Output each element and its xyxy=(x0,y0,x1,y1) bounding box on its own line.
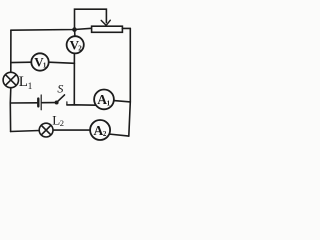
label: voltmeter V2 text xyxy=(70,37,83,52)
svg-text:S: S xyxy=(57,82,63,96)
wire: switch to ammeter A1 xyxy=(67,104,96,106)
svg-text:2: 2 xyxy=(60,118,64,128)
label: lamp L1 xyxy=(19,74,33,92)
wire: battery row left (junction to battery) xyxy=(10,102,37,104)
svg-text:1: 1 xyxy=(28,82,33,92)
label: ammeter A2 text xyxy=(94,123,107,138)
svg-text:2: 2 xyxy=(78,44,82,52)
lamp L2 cross xyxy=(42,126,51,135)
svg-text:L: L xyxy=(19,74,28,90)
node: junction dot at top wire xyxy=(72,27,77,32)
wire: L2 to A2 xyxy=(53,129,90,131)
wire: A1 right to right rail xyxy=(114,101,131,102)
ammeter A1 circle xyxy=(94,90,114,110)
label: lamp L2 xyxy=(52,112,64,127)
wire: V2 top stub to junction dot xyxy=(74,31,76,37)
wire: left vertical rail upper (corner to L1) xyxy=(10,30,12,72)
label: voltmeter V1 text xyxy=(34,54,47,69)
rheostat wiper arrowhead xyxy=(101,20,110,25)
switch right contact tick xyxy=(66,102,68,105)
wire: battery to switch pivot xyxy=(42,102,55,104)
svg-text:1: 1 xyxy=(107,100,111,108)
battery cell: long thin positive plate xyxy=(40,95,42,110)
lamp L2 circle xyxy=(39,123,53,137)
wire: right vertical rail xyxy=(129,28,131,136)
wire: left vertical rail middle (L1 to battery junction) and lower xyxy=(9,88,12,132)
battery cell: short thick negative plate xyxy=(37,99,39,107)
lamp L1 cross xyxy=(6,75,16,85)
wire: top horizontal (left corner to rheostat left terminal) xyxy=(11,28,92,30)
svg-text:1: 1 xyxy=(43,62,47,70)
wire: V1 right (V1 to voltmeter branch) xyxy=(49,62,75,63)
switch S lever (open, angled up-right) xyxy=(57,95,65,103)
switch S pivot dot xyxy=(55,101,59,105)
wire: bottom horizontal (corner to L2) xyxy=(11,131,40,132)
ammeter A2 circle xyxy=(90,120,110,140)
wire: rheostat right terminal to right rail xyxy=(122,27,130,29)
voltmeter V2 circle xyxy=(67,36,84,53)
rheostat slide resistor body xyxy=(92,26,123,32)
lamp L1 circle xyxy=(3,72,18,87)
wire: V1 left (left rail to V1) xyxy=(11,61,32,63)
svg-text:2: 2 xyxy=(103,130,107,138)
wire: branch up and over to wiper xyxy=(75,9,107,29)
wire: bottom right segment (A2 to right rail corner) xyxy=(109,134,129,136)
voltmeter V1 circle xyxy=(31,53,48,70)
label: ammeter A1 text xyxy=(97,92,110,107)
wire: voltmeter branch vertical (V2 bottom down to switch row) xyxy=(73,53,75,104)
